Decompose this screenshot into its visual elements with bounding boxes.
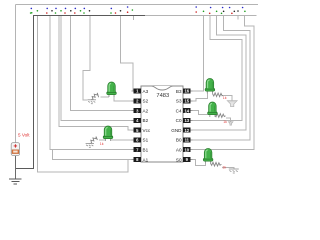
svg-text:5 Volt: 5 Volt xyxy=(18,132,30,137)
svg-text:S1: S1 xyxy=(143,138,149,143)
svg-text:13: 13 xyxy=(184,118,189,123)
svg-text:1k: 1k xyxy=(223,120,227,124)
svg-text:Vcc: Vcc xyxy=(143,128,151,133)
svg-text:12: 12 xyxy=(184,128,189,133)
svg-text:B0: B0 xyxy=(176,138,182,143)
svg-text:GND: GND xyxy=(171,128,182,133)
svg-text:1k: 1k xyxy=(223,96,227,100)
svg-text:A0: A0 xyxy=(176,148,182,153)
svg-text:15: 15 xyxy=(184,99,189,104)
svg-text:S2: S2 xyxy=(143,99,149,104)
svg-text:B1: B1 xyxy=(143,148,149,153)
svg-text:C0: C0 xyxy=(176,118,182,123)
svg-text:C4: C4 xyxy=(176,108,182,113)
svg-text:B2: B2 xyxy=(143,118,149,123)
svg-text:1k: 1k xyxy=(222,166,226,170)
svg-text:S3: S3 xyxy=(176,99,182,104)
svg-text:14: 14 xyxy=(184,108,189,113)
svg-text:S0: S0 xyxy=(176,157,182,162)
svg-text:11: 11 xyxy=(185,138,190,143)
svg-text:B3: B3 xyxy=(176,89,182,94)
svg-text:7483: 7483 xyxy=(156,93,169,99)
svg-text:10: 10 xyxy=(184,147,189,152)
svg-text:16: 16 xyxy=(184,89,189,94)
svg-text:A3: A3 xyxy=(143,89,149,94)
svg-text:A1: A1 xyxy=(143,157,149,162)
svg-text:1k: 1k xyxy=(100,142,104,146)
svg-text:A2: A2 xyxy=(143,108,149,113)
